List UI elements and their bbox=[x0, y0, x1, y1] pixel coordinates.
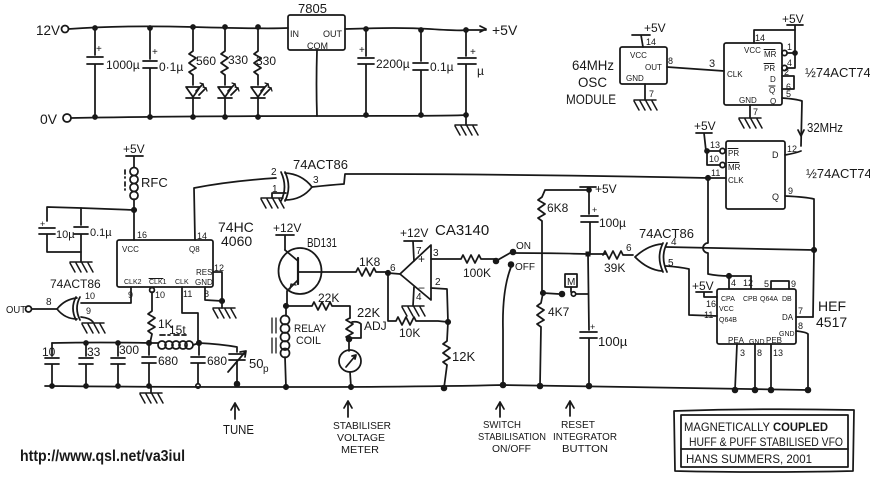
svg-text:Q: Q bbox=[772, 192, 779, 202]
wire mixer gate output 3 across to U3 CLK bbox=[312, 174, 708, 187]
svg-text:13: 13 bbox=[773, 348, 783, 358]
svg-text:GND: GND bbox=[739, 96, 757, 105]
svg-text:OFF: OFF bbox=[515, 262, 535, 273]
svg-text:DA: DA bbox=[782, 313, 794, 322]
svg-text:560: 560 bbox=[196, 54, 216, 68]
svg-text:8: 8 bbox=[46, 297, 52, 308]
node integrator junction bbox=[586, 252, 607, 257]
svg-text:14: 14 bbox=[646, 37, 656, 47]
svg-text:Q64A: Q64A bbox=[760, 296, 778, 303]
label RESET INTEGRATOR BUTTON with arrow bbox=[553, 401, 617, 455]
svg-text:+5V: +5V bbox=[692, 279, 714, 293]
svg-text:SWITCH: SWITCH bbox=[483, 419, 521, 431]
svg-text:STABILISATION: STABILISATION bbox=[478, 431, 546, 443]
svg-text:680: 680 bbox=[207, 354, 227, 368]
svg-text:8: 8 bbox=[798, 321, 803, 331]
svg-text:+5V: +5V bbox=[694, 119, 716, 133]
svg-text:74ACT86: 74ACT86 bbox=[50, 277, 101, 291]
svg-text:BD131: BD131 bbox=[307, 235, 337, 250]
svg-text:1K8: 1K8 bbox=[359, 255, 381, 269]
title box bbox=[674, 409, 854, 472]
svg-text:100µ: 100µ bbox=[598, 334, 628, 349]
svg-text:+: + bbox=[152, 47, 158, 58]
svg-text:MR: MR bbox=[764, 50, 777, 59]
svg-text:Q: Q bbox=[769, 86, 775, 95]
capacitor C 680 tank first bbox=[142, 343, 178, 388]
IC U7 HEF4517 bbox=[717, 289, 847, 346]
svg-text:4: 4 bbox=[416, 292, 422, 303]
svg-text:22K: 22K bbox=[318, 291, 339, 305]
svg-text:VCC: VCC bbox=[122, 245, 139, 254]
svg-text:IN: IN bbox=[290, 29, 299, 39]
wire U2 D pin 2 to Qbar pin 6 bbox=[782, 67, 794, 92]
svg-text:MODULE: MODULE bbox=[566, 91, 616, 107]
svg-text:13: 13 bbox=[710, 140, 720, 150]
wire 4060 CLK2 pin 9 to output gate input 10 bbox=[81, 287, 133, 303]
svg-text:7805: 7805 bbox=[298, 1, 327, 16]
wire RFC junction to decoupling caps bbox=[47, 207, 134, 221]
resistor R 39K bbox=[603, 251, 633, 275]
svg-text:6K8: 6K8 bbox=[547, 201, 569, 215]
regulator U 7805 bbox=[288, 1, 345, 51]
svg-text:7: 7 bbox=[416, 246, 422, 257]
svg-text:10µ: 10µ bbox=[56, 229, 75, 241]
label SWITCH STABILISATION ON/OFF with arrow bbox=[478, 402, 546, 455]
svg-text:+: + bbox=[590, 322, 595, 332]
svg-text:MR: MR bbox=[728, 163, 741, 172]
ground below output caps bbox=[455, 115, 478, 135]
svg-text:74ACT86: 74ACT86 bbox=[639, 226, 694, 241]
wire 4517 GND right pin 8 to rail bbox=[796, 321, 810, 392]
svg-text:300: 300 bbox=[119, 343, 139, 357]
wire +5V output rail bbox=[345, 28, 466, 30]
resistor R 330 second bbox=[254, 25, 276, 85]
resistor R 22K emitter bbox=[286, 291, 350, 318]
capacitor C 0.1u bbox=[143, 26, 183, 119]
svg-text:9: 9 bbox=[788, 186, 793, 196]
capacitor C 100u upper integrator bbox=[581, 190, 626, 254]
oscillator module 64MHz OSC bbox=[566, 47, 667, 107]
svg-text:8: 8 bbox=[757, 348, 762, 358]
node +5V arrow bbox=[466, 22, 518, 38]
wire 12V top rail bbox=[69, 26, 289, 29]
switch SW stabilisation ON OFF bbox=[494, 241, 535, 273]
wire 4060 Q8 pin 14 up to mixer gate input 2 bbox=[194, 178, 276, 241]
svg-text:CLK: CLK bbox=[175, 279, 189, 286]
svg-text:680: 680 bbox=[158, 354, 178, 368]
capacitor C 50p trimmer TUNE bbox=[199, 343, 269, 386]
svg-text:PEB: PEB bbox=[766, 336, 782, 345]
svg-text:Q64B: Q64B bbox=[719, 317, 737, 324]
wire U2 MR pin 1 and PR pin 4 tied to +5V bbox=[782, 30, 797, 71]
svg-text:2: 2 bbox=[784, 67, 789, 77]
svg-text:9: 9 bbox=[791, 279, 796, 289]
svg-text:CPB: CPB bbox=[743, 296, 758, 303]
capacitor C 2200u electrolytic bbox=[358, 27, 410, 117]
wire 4517 DA pin 7 from phase line bbox=[796, 306, 813, 317]
svg-text:GND: GND bbox=[749, 339, 765, 346]
svg-text:15t: 15t bbox=[169, 323, 186, 337]
wire main ground rail bbox=[45, 385, 808, 390]
svg-text:0·1µ: 0·1µ bbox=[159, 60, 183, 74]
node 0V input terminal bbox=[40, 111, 71, 127]
wire 4060 RES pin 12 to ground bbox=[213, 263, 224, 301]
svg-text:+: + bbox=[470, 47, 476, 58]
svg-text:ADJ: ADJ bbox=[364, 319, 387, 333]
svg-text:RESET: RESET bbox=[561, 419, 596, 431]
svg-text:HANS SUMMERS, 2001: HANS SUMMERS, 2001 bbox=[686, 452, 812, 466]
ground mixer gate input pin 1 bbox=[261, 193, 286, 208]
svg-text:10: 10 bbox=[709, 154, 719, 164]
resistor R 100K from pin 3 bbox=[431, 255, 496, 280]
svg-text:CLK1: CLK1 bbox=[149, 279, 167, 286]
svg-text:METER: METER bbox=[341, 444, 379, 456]
svg-text:+: + bbox=[592, 205, 597, 215]
svg-text:6: 6 bbox=[390, 263, 396, 274]
wire 7805 COM to 0V rail bbox=[316, 50, 319, 116]
svg-text:22K: 22K bbox=[357, 305, 380, 320]
label TUNE with arrow bbox=[223, 403, 254, 437]
svg-text:330: 330 bbox=[256, 54, 276, 68]
svg-text:33: 33 bbox=[87, 345, 101, 359]
wire op-amp output pin 6 to base resistor bbox=[388, 273, 400, 274]
svg-text:OUT: OUT bbox=[323, 29, 343, 39]
wire 4517 Q64A pin 5 to DB pin 9 bbox=[764, 279, 796, 289]
LED D1 bbox=[186, 83, 207, 119]
node +5V supply for VFO RFC bbox=[123, 142, 145, 167]
capacitor C 10u decoupling bbox=[39, 219, 81, 252]
svg-text:COIL: COIL bbox=[296, 335, 321, 347]
wire tank top rail bbox=[52, 341, 201, 345]
svg-text:HUFF & PUFF STABILISED VFO: HUFF & PUFF STABILISED VFO bbox=[689, 435, 843, 449]
svg-text:p: p bbox=[263, 364, 269, 375]
svg-text:CLK: CLK bbox=[727, 70, 743, 79]
svg-text:INTEGRATOR: INTEGRATOR bbox=[553, 431, 617, 443]
wire OSC OUT pin 8 to CLK pin 3 of U2 bbox=[667, 56, 724, 71]
svg-text:MAGNETICALLY COUPLED: MAGNETICALLY COUPLED bbox=[684, 420, 828, 434]
label STABILISER VOLTAGE METER with arrow bbox=[333, 401, 391, 456]
capacitor C 1000u electrolytic bbox=[87, 26, 140, 119]
svg-text:64MHz: 64MHz bbox=[572, 57, 614, 73]
label URL bbox=[20, 448, 185, 465]
wire U2 Q pin 5 output 32MHz bbox=[782, 89, 843, 146]
resistor R 1K8 base bbox=[322, 255, 390, 276]
svg-text:VCC: VCC bbox=[630, 51, 647, 60]
svg-text:0V: 0V bbox=[40, 111, 58, 127]
svg-text:DB: DB bbox=[782, 296, 792, 303]
wire 4060 GND pin 8 to ground bbox=[204, 287, 236, 318]
svg-text:5: 5 bbox=[764, 279, 769, 289]
node 12V input terminal bbox=[36, 22, 69, 38]
svg-text:OUT: OUT bbox=[6, 305, 26, 316]
inductor relay coil bbox=[272, 306, 327, 389]
resistor R 12K to ground bbox=[442, 322, 476, 390]
svg-text:BUTTON: BUTTON bbox=[562, 443, 608, 455]
button M reset integrator bbox=[541, 274, 588, 296]
wire mixer output into U3 CLK pin 11 and down to 4517 clock bbox=[703, 168, 751, 278]
svg-text:Q8: Q8 bbox=[189, 245, 200, 254]
svg-text:http://www.qsl.net/va3iul: http://www.qsl.net/va3iul bbox=[20, 448, 185, 465]
svg-text:1: 1 bbox=[787, 42, 792, 52]
gate U5b 74ACT86 output buffer XOR bbox=[46, 277, 101, 320]
svg-text:STABILISER: STABILISER bbox=[333, 420, 391, 432]
svg-text:39K: 39K bbox=[604, 261, 625, 275]
flip-flop U3 1/2 74ACT74 second bbox=[726, 141, 870, 209]
svg-text:1000µ: 1000µ bbox=[106, 58, 140, 72]
node +5V supply for U3 PR MR bbox=[694, 119, 716, 151]
IC U4 74HC4060 bbox=[117, 219, 254, 287]
ground tank bottom rail bbox=[140, 386, 163, 403]
svg-text:330: 330 bbox=[228, 53, 248, 67]
svg-text:12: 12 bbox=[743, 278, 753, 288]
ground U2 GND pin 7 bbox=[739, 96, 762, 128]
capacitor C 10 tank bbox=[42, 343, 59, 388]
capacitor C 0.1u output bbox=[413, 28, 454, 117]
op-amp U6 CA3140 bbox=[390, 222, 489, 300]
flip-flop U2 1/2 74ACT74 first bbox=[724, 43, 870, 106]
svg-text:7: 7 bbox=[753, 107, 758, 117]
capacitor C 300 tank bbox=[111, 341, 139, 388]
svg-text:GND: GND bbox=[626, 74, 644, 83]
svg-text:+12V: +12V bbox=[400, 226, 428, 240]
svg-text:RFC: RFC bbox=[141, 175, 168, 190]
LED D3 bbox=[251, 83, 272, 119]
svg-text:3: 3 bbox=[740, 348, 745, 358]
svg-text:16: 16 bbox=[706, 299, 716, 309]
gate U5a 74ACT86 mixer XOR bbox=[271, 157, 348, 201]
svg-text:RES: RES bbox=[196, 268, 212, 277]
ground OSC module pin 7 bbox=[634, 84, 657, 110]
node +5V supply integrator bbox=[580, 182, 617, 196]
wire RFC junction down to 4060 VCC pin 16 bbox=[134, 210, 147, 240]
svg-text:CLK2: CLK2 bbox=[124, 279, 142, 286]
resistor R 4K7 bbox=[537, 293, 570, 388]
wire 0V bottom rail bbox=[71, 115, 466, 118]
svg-text:Q: Q bbox=[770, 97, 776, 106]
wire 4060 CLK pin 11 down to tank bbox=[182, 287, 198, 343]
capacitor C 100u lower integrator bbox=[580, 254, 628, 388]
svg-text:ON: ON bbox=[516, 241, 531, 252]
potentiometer R 22K ADJ bbox=[346, 305, 387, 341]
node +5V supply for U2 pin 14 bbox=[754, 12, 804, 43]
svg-text:OSC: OSC bbox=[578, 74, 607, 90]
svg-text:+12V: +12V bbox=[273, 221, 301, 235]
svg-text:10: 10 bbox=[85, 291, 95, 301]
inductor L 15t VFO coil bbox=[150, 323, 199, 349]
svg-text:32MHz: 32MHz bbox=[807, 120, 843, 135]
svg-text:7: 7 bbox=[798, 306, 803, 316]
svg-text:50: 50 bbox=[249, 356, 263, 371]
svg-text:GND: GND bbox=[195, 278, 213, 287]
svg-text:11: 11 bbox=[711, 168, 720, 178]
svg-text:4517: 4517 bbox=[816, 314, 847, 330]
svg-text:10: 10 bbox=[155, 290, 165, 300]
wire 4517 clock pins 4 and 12 bbox=[729, 276, 753, 289]
ground output gate input 9 bbox=[81, 317, 105, 333]
svg-text:D: D bbox=[772, 150, 779, 160]
svg-text:10K: 10K bbox=[399, 326, 420, 340]
ground decoupling caps bbox=[70, 262, 93, 272]
svg-text:6: 6 bbox=[626, 243, 632, 254]
capacitor C 1u electrolytic output bbox=[458, 28, 484, 117]
capacitor C 0.1u decoupling bbox=[74, 208, 112, 262]
wire 32MHz into U3 D pin 12 bbox=[785, 144, 801, 155]
svg-text:100K: 100K bbox=[463, 266, 491, 280]
wire OFF contact down to ground rail bbox=[503, 267, 511, 385]
resistor R 1K on CLK1 pin 10 bbox=[148, 288, 173, 343]
svg-text:3: 3 bbox=[709, 58, 715, 70]
svg-text:10: 10 bbox=[42, 345, 56, 359]
svg-text:OUT: OUT bbox=[645, 63, 662, 72]
resistor R 10K feedback bbox=[388, 273, 450, 340]
svg-text:2200µ: 2200µ bbox=[376, 57, 410, 71]
wire ON contact to integrator node bbox=[515, 253, 588, 254]
svg-text:+5V: +5V bbox=[123, 142, 145, 156]
ground op-amp pin 4 bbox=[402, 287, 425, 316]
svg-text:74ACT86: 74ACT86 bbox=[293, 157, 348, 172]
wire U3 PR pin 13 MR pin 10 tie bbox=[705, 140, 725, 168]
svg-text:100µ: 100µ bbox=[599, 216, 626, 230]
svg-text:CLK: CLK bbox=[728, 176, 744, 185]
node +12V supply for BD131 bbox=[273, 221, 301, 250]
svg-text:½74ACT74: ½74ACT74 bbox=[805, 65, 870, 80]
node +5V supply for OSC module pin 14 bbox=[632, 21, 666, 47]
svg-text:3: 3 bbox=[433, 248, 439, 259]
svg-text:VCC: VCC bbox=[719, 306, 734, 313]
svg-text:4060: 4060 bbox=[221, 233, 252, 249]
svg-text:µ: µ bbox=[477, 64, 484, 78]
resistor R 330 bbox=[221, 25, 248, 85]
svg-text:12K: 12K bbox=[452, 349, 475, 364]
svg-text:14: 14 bbox=[197, 231, 207, 241]
svg-text:8: 8 bbox=[668, 56, 673, 66]
capacitor C 680 tank second bbox=[191, 343, 227, 388]
capacitor C 33 tank bbox=[79, 341, 101, 388]
svg-text:11: 11 bbox=[704, 310, 713, 320]
svg-text:+: + bbox=[40, 219, 45, 229]
svg-text:5: 5 bbox=[786, 89, 791, 99]
transistor Q1 BD131 bbox=[279, 235, 338, 308]
svg-text:+5V: +5V bbox=[595, 182, 617, 196]
inductor RFC bbox=[125, 168, 168, 213]
wire feedback node up to inverting input pin 2 bbox=[431, 288, 448, 322]
wire phase detector input 5 from 4517 Q64B bbox=[666, 266, 717, 316]
svg-text:D: D bbox=[770, 75, 776, 84]
svg-text:14: 14 bbox=[755, 33, 765, 43]
svg-text:0.1µ: 0.1µ bbox=[430, 60, 454, 74]
svg-text:HEF: HEF bbox=[818, 298, 846, 314]
svg-text:0.1µ: 0.1µ bbox=[90, 227, 112, 239]
svg-text:7: 7 bbox=[649, 89, 654, 99]
svg-text:RELAY: RELAY bbox=[294, 323, 327, 335]
svg-text:2: 2 bbox=[435, 277, 441, 288]
svg-text:16: 16 bbox=[137, 230, 147, 240]
svg-text:PR: PR bbox=[728, 149, 739, 158]
resistor R 560 bbox=[189, 25, 216, 85]
wire 4517 bottom pins PEA 3 GND 8 PEB 13 to rail bbox=[733, 344, 783, 392]
svg-text:VOLTAGE: VOLTAGE bbox=[337, 432, 385, 444]
svg-text:2: 2 bbox=[271, 167, 277, 178]
wire U3 Q pin 9 to phase detector and DA bbox=[785, 186, 816, 317]
svg-text:VCC: VCC bbox=[744, 46, 761, 55]
svg-text:+: + bbox=[96, 44, 102, 55]
meter M stabiliser voltage bbox=[339, 339, 361, 389]
node +12V supply op-amp pin 7 bbox=[400, 226, 428, 261]
svg-text:+5V: +5V bbox=[492, 22, 518, 38]
wire phase detector input 4 from U3 Q bbox=[666, 247, 814, 250]
gate U5c 74ACT86 phase detector XOR bbox=[626, 226, 694, 272]
svg-text:9: 9 bbox=[86, 306, 91, 316]
svg-text:+: + bbox=[359, 45, 365, 56]
svg-text:12: 12 bbox=[787, 144, 797, 154]
node OUT terminal bbox=[6, 305, 57, 316]
svg-text:3: 3 bbox=[313, 175, 319, 186]
svg-text:+5V: +5V bbox=[644, 21, 666, 35]
svg-text:11: 11 bbox=[183, 289, 192, 299]
svg-text:ON/OFF: ON/OFF bbox=[492, 443, 531, 455]
svg-text:CPA: CPA bbox=[721, 296, 735, 303]
LED D2 bbox=[218, 83, 239, 119]
svg-text:½74ACT74: ½74ACT74 bbox=[806, 166, 870, 181]
svg-text:12V: 12V bbox=[36, 22, 61, 38]
svg-text:PR: PR bbox=[764, 64, 775, 73]
svg-text:4: 4 bbox=[731, 278, 736, 288]
svg-text:+5V: +5V bbox=[782, 12, 804, 26]
svg-text:4K7: 4K7 bbox=[548, 305, 570, 319]
svg-text:CA3140: CA3140 bbox=[435, 222, 489, 239]
resistor R 6K8 bbox=[538, 190, 589, 293]
node +5V supply 4517 VCC pin 16 bbox=[692, 279, 717, 309]
svg-text:TUNE: TUNE bbox=[223, 422, 254, 437]
